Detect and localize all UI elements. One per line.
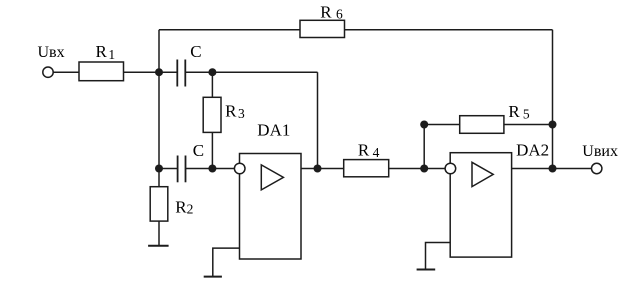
wire R1 to node A: [124, 71, 178, 73]
svg-text:C: C: [193, 141, 204, 160]
svg-text:R: R: [96, 42, 108, 61]
wire top rail left: [159, 29, 300, 31]
svg-text:Uвих: Uвих: [582, 143, 618, 160]
ground under R2: [148, 245, 169, 247]
ground DA2: [417, 269, 436, 271]
wire right vertical x=552.5 from top rail to output: [552, 30, 554, 169]
wire DA1 noninverting input to ground: [213, 248, 240, 277]
node Uvyh output terminal: [592, 163, 602, 173]
svg-text:C: C: [190, 42, 201, 61]
resistor R5: [460, 116, 504, 134]
node B: [208, 68, 216, 76]
svg-text:1: 1: [108, 47, 115, 62]
svg-text:3: 3: [238, 106, 245, 121]
wire C2 to DA1 input: [186, 168, 235, 170]
svg-text:6: 6: [336, 6, 343, 21]
capacitor C2: [178, 156, 186, 183]
node A: [155, 68, 163, 76]
wire input to R1: [53, 71, 79, 73]
wire node B down to R3: [211, 72, 213, 97]
svg-text:4: 4: [373, 145, 380, 160]
svg-text:Uвх: Uвх: [38, 44, 65, 61]
node DA2 output: [549, 165, 557, 173]
node R5 right: [549, 121, 557, 129]
svg-text:R: R: [320, 3, 332, 22]
svg-text:DA1: DA1: [257, 121, 290, 140]
wire R3 to row2 node: [211, 132, 213, 168]
node C: [208, 165, 216, 173]
node R5 left: [420, 121, 428, 129]
svg-text:2: 2: [187, 202, 194, 217]
wire R2 to ground: [158, 221, 160, 246]
wire R4 to DA2 input: [389, 168, 445, 170]
svg-text:R: R: [358, 141, 370, 160]
wire vertical x=159 from top rail to row2: [158, 30, 160, 169]
node DA1 output: [314, 165, 322, 173]
wire node to R5: [424, 124, 460, 126]
op-amp DA2: [445, 153, 512, 257]
op-amp DA1: [234, 154, 301, 260]
resistor R1: [79, 62, 124, 81]
wire row2 node down to R2: [158, 169, 160, 187]
svg-text:R: R: [225, 102, 237, 121]
resistor R4: [344, 160, 389, 177]
wire feedback vertical x=317.5: [317, 72, 319, 168]
wire node up to R5 branch: [423, 125, 425, 169]
resistor R6: [300, 20, 345, 37]
capacitor C1: [177, 60, 185, 87]
resistor R2: [150, 187, 168, 221]
svg-text:DA2: DA2: [516, 140, 549, 159]
node Uvx input terminal: [43, 67, 53, 77]
wire top rail right: [345, 29, 553, 31]
wire DA2 output to terminal: [512, 168, 592, 170]
ground DA1: [204, 276, 222, 278]
wire DA2 noninverting input to ground: [426, 243, 451, 270]
resistor R3: [203, 97, 221, 132]
wire C1 to feedback vertical: [185, 71, 317, 73]
wire DA1 output to R4: [301, 168, 344, 170]
wire row2 node to C2: [159, 168, 178, 170]
node row2 left: [155, 165, 163, 173]
node DA2 input: [420, 165, 428, 173]
svg-text:R: R: [175, 197, 187, 216]
svg-text:R: R: [508, 102, 520, 121]
wire R5 to right vertical: [504, 124, 553, 126]
svg-text:5: 5: [523, 107, 530, 122]
